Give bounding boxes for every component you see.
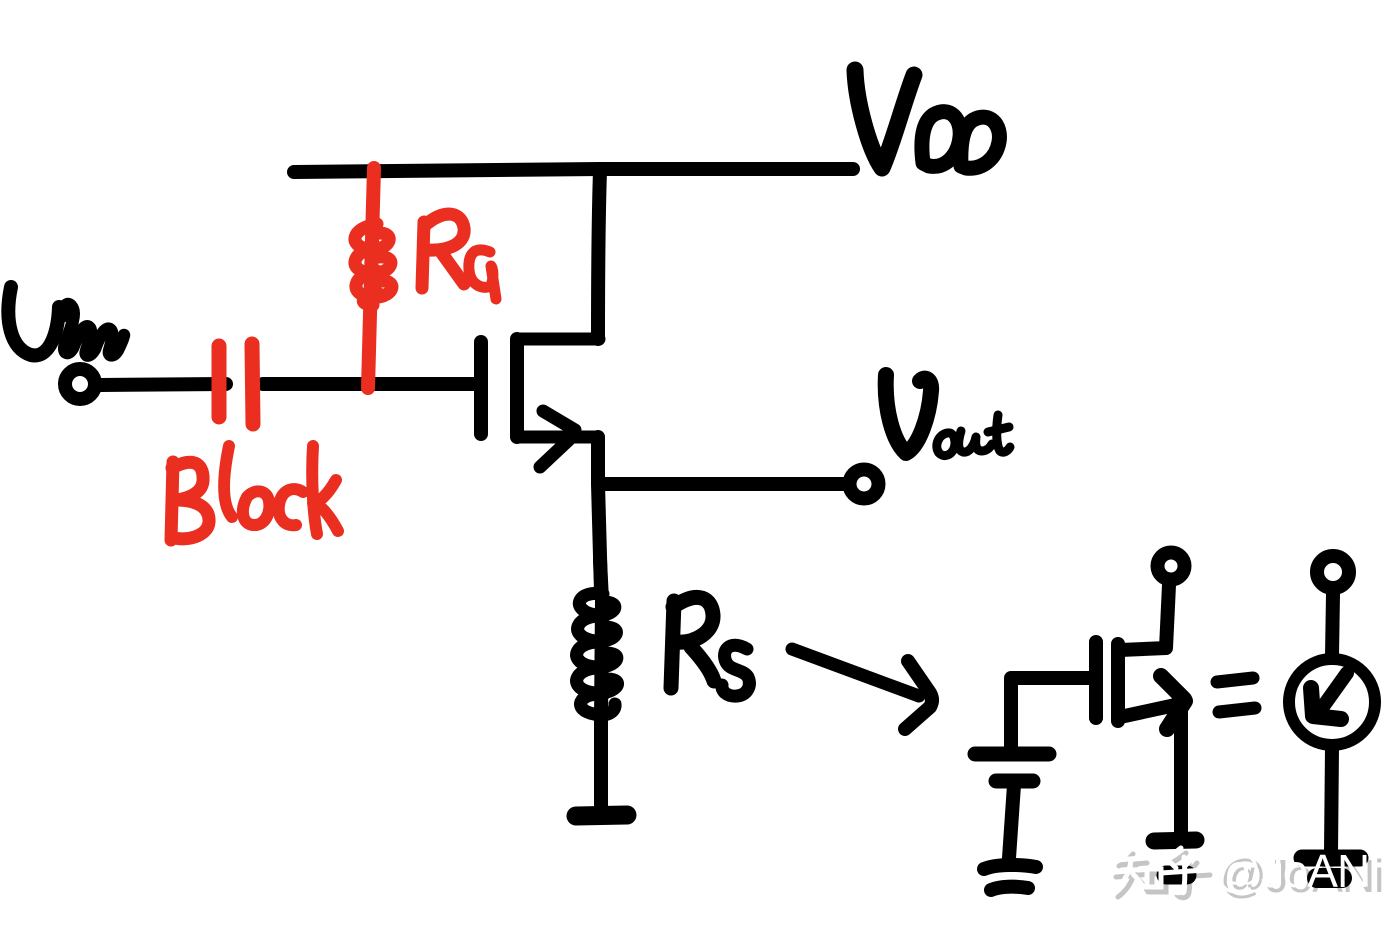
node Vout label xyxy=(886,375,1010,456)
resistor RG label xyxy=(422,214,496,299)
ground for M2 source xyxy=(1154,840,1196,841)
arrow pointing to equivalent circuit xyxy=(792,649,932,729)
wire drain vertical to VDD xyxy=(598,171,600,339)
ground bar 2 for current source xyxy=(1317,868,1342,888)
capacitor bias plate 2 xyxy=(996,774,1033,789)
resistor RG xyxy=(355,168,392,388)
ground bar 2 for M2 source xyxy=(1166,866,1187,885)
node drain terminal of M2 xyxy=(1158,553,1185,580)
wire source down to output node xyxy=(591,437,605,484)
wire M2 gate to bias cap xyxy=(1011,678,1092,748)
wire VDD rail xyxy=(294,169,853,172)
transistor M1 gate bar xyxy=(474,342,488,434)
capacitor C-block plate 1 xyxy=(212,346,227,417)
transistor M1 channel bar xyxy=(510,339,524,437)
wire output node down to RS xyxy=(598,484,601,592)
equals sign xyxy=(1217,678,1255,712)
wire current source down xyxy=(1331,748,1332,852)
wire Vin to capacitor xyxy=(100,384,226,385)
watermark white layer xyxy=(1111,848,1205,893)
wire M2 drain xyxy=(1120,585,1169,650)
transistor M2 channel bar xyxy=(1111,644,1125,721)
node Vin terminal xyxy=(65,369,95,399)
node Vin label xyxy=(8,287,124,356)
current source I1 xyxy=(1289,659,1375,745)
ground for bias cap xyxy=(984,865,1036,890)
node VDD label xyxy=(855,70,999,168)
transistor M1 source with arrow xyxy=(517,411,597,467)
wire M2 source down xyxy=(1174,706,1188,838)
resistor RS xyxy=(577,560,618,810)
capacitor C-block plate 2 xyxy=(252,344,253,424)
capacitor bias plate 1 xyxy=(975,747,1049,762)
node current source terminal xyxy=(1317,556,1349,588)
transistor M1 drain connection xyxy=(517,333,599,346)
wire bias cap to ground xyxy=(1009,785,1014,858)
wire terminal to current source xyxy=(1332,594,1333,656)
resistor RS label xyxy=(671,597,749,696)
transistor M2 gate bar xyxy=(1089,642,1103,718)
node Vout terminal xyxy=(850,470,879,499)
ground for current source xyxy=(1302,850,1360,867)
ground for RS xyxy=(576,815,627,816)
wire capacitor to gate xyxy=(263,377,477,391)
capacitor Block label xyxy=(171,446,338,540)
watermark shadow layer xyxy=(1116,853,1210,898)
transistor M2 source with arrow xyxy=(1120,676,1185,729)
wire output node to Vout xyxy=(598,477,845,491)
svg-text:@JoANi: @JoANi xyxy=(1215,845,1378,897)
